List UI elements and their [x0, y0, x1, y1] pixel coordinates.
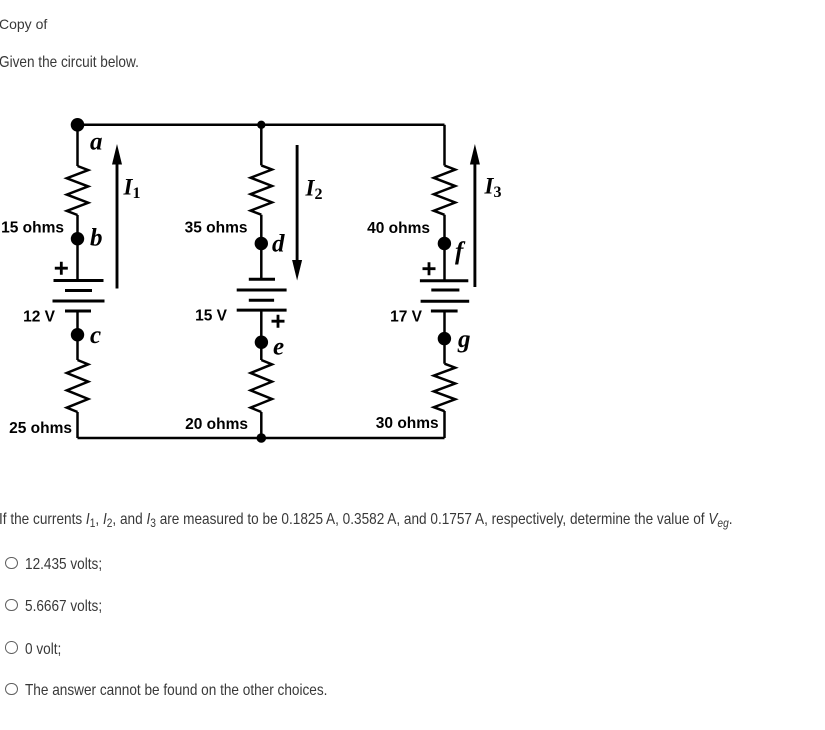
current arrow I1: [112, 144, 122, 289]
option 2 text: [25, 598, 102, 616]
option 2 radio: [5, 599, 18, 612]
battery 15V plates: [237, 279, 287, 310]
resistor 25 ohms (left bottom): [67, 360, 88, 412]
svg-text:17 V: 17 V: [390, 309, 423, 326]
option 4 radio: [5, 683, 18, 696]
battery 12V plus sign: [55, 262, 68, 275]
wire: battery 15V to resistor 20 ohms: [260, 310, 263, 360]
battery 15V plus sign: [272, 315, 285, 328]
svg-text:a: a: [90, 129, 103, 156]
svg-text:d: d: [272, 231, 285, 258]
resistor 15 ohms (left top): [67, 166, 88, 215]
node a: [71, 118, 85, 132]
svg-text:35 ohms: 35 ohms: [185, 220, 248, 237]
current arrow I2 (downward): [292, 145, 302, 281]
svg-text:40 ohms: 40 ohms: [367, 220, 430, 237]
option 3 radio: [5, 641, 18, 654]
wire: bottom rail: [78, 437, 445, 440]
node g: [438, 332, 451, 345]
svg-text:b: b: [90, 225, 103, 252]
svg-text:I3: I3: [484, 174, 502, 202]
wire: resistor R1 to battery 12V top plate: [76, 215, 79, 281]
current arrow I3: [470, 144, 480, 287]
battery 17V plates: [420, 281, 469, 311]
prompt "Given the circuit below.": [0, 55, 139, 71]
wire: resistor 35 ohms to battery 15V: [260, 215, 263, 280]
option 1 text: [25, 556, 102, 574]
wire: resistor 40 ohms to battery 17V: [443, 215, 446, 281]
resistor 40 ohms (right top): [434, 166, 455, 215]
wire: resistor 25 ohms to bottom rail: [76, 412, 79, 438]
wire: battery 17V to resistor 30 ohms: [443, 311, 446, 364]
resistor 20 ohms (middle bottom): [251, 360, 272, 412]
svg-text:30 ohms: 30 ohms: [376, 415, 439, 432]
junction node on bottom rail: [257, 433, 267, 443]
resistor 30 ohms (right bottom): [434, 364, 455, 411]
node d: [255, 237, 268, 250]
wire: node a down to resistor R1: [76, 125, 79, 166]
wire: top rail junction to resistor 35 ohms: [260, 125, 263, 166]
node c: [71, 328, 84, 341]
question text: [0, 512, 733, 528]
wire: resistor 30 ohms to bottom rail: [443, 411, 446, 438]
wire: top rail from node a to top-right corner: [78, 124, 445, 127]
svg-text:g: g: [457, 326, 471, 353]
node e: [255, 336, 268, 349]
svg-text:12 V: 12 V: [23, 309, 56, 326]
wire: battery 12V bottom plate to resistor 25 ohms: [76, 311, 79, 360]
svg-text:15 ohms: 15 ohms: [1, 220, 64, 237]
svg-text:e: e: [273, 334, 284, 361]
battery 12V plates: [53, 281, 105, 312]
junction node on top rail: [257, 121, 265, 129]
option 1 radio: [5, 557, 18, 570]
circuit schematic image: [0, 100, 520, 460]
node f: [438, 237, 451, 250]
svg-text:25 ohms: 25 ohms: [9, 420, 72, 437]
svg-text:15 V: 15 V: [195, 308, 228, 325]
svg-text:I1: I1: [123, 174, 141, 202]
option 3 text: [25, 641, 61, 659]
svg-text:I2: I2: [305, 176, 323, 204]
title line "Copy of": [0, 17, 47, 31]
svg-text:f: f: [455, 238, 466, 265]
svg-text:c: c: [90, 322, 101, 349]
svg-text:20 ohms: 20 ohms: [185, 416, 248, 433]
resistor 35 ohms (middle top): [251, 165, 272, 214]
wire: top-right corner down to resistor 40 ohms: [443, 125, 446, 166]
node b: [71, 232, 84, 245]
wire: resistor 20 ohms to bottom rail: [260, 412, 263, 438]
option 4 text: [25, 682, 327, 700]
battery 17V plus sign: [423, 262, 436, 275]
